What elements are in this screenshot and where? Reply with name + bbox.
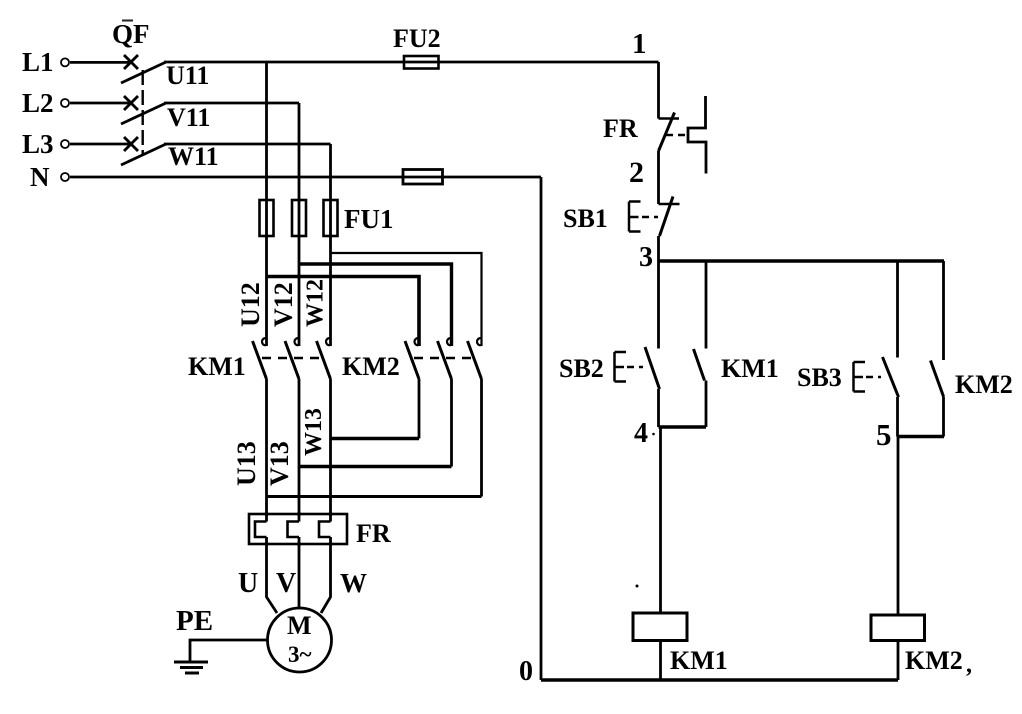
svg-text:V12: V12 [269, 282, 298, 327]
stray dot mark [636, 585, 639, 588]
wire W11 row [164, 143, 331, 146]
wire V11 row [164, 102, 299, 105]
wire coil KM1 bottom [659, 641, 662, 681]
FR trip actuator dashes [666, 134, 687, 137]
svg-text:KM1: KM1 [670, 646, 728, 675]
svg-text:V13: V13 [265, 441, 294, 486]
terminal N [61, 173, 69, 181]
svg-text:PE: PE [176, 605, 213, 637]
svg-text:W12: W12 [303, 279, 329, 327]
svg-text:U: U [238, 568, 258, 599]
wire L1 lead [70, 61, 131, 64]
wire U to motor [267, 537, 278, 613]
wire rail 3 [659, 259, 945, 262]
wire node1 drop [657, 62, 660, 119]
wire U13 bus [267, 495, 482, 498]
svg-text:KM2: KM2 [955, 370, 1013, 399]
svg-text:SB3: SB3 [797, 363, 842, 392]
SB3 actuator dashes [866, 376, 881, 379]
svg-text:FU1: FU1 [344, 204, 394, 234]
svg-text:,: , [966, 652, 972, 678]
FR heater element U [255, 522, 267, 538]
wire L3 lead [70, 143, 131, 146]
svg-text:KM2: KM2 [342, 352, 400, 381]
SB1 actuator dashes [642, 216, 658, 219]
wire rail 4 [659, 425, 707, 429]
fuse FU1 pole W [324, 200, 338, 236]
wire coil KM2 bottom [897, 641, 900, 681]
speck above QF [122, 20, 133, 22]
pushbutton SB2 (NO start KM1) [645, 347, 660, 427]
svg-text:W13: W13 [301, 408, 327, 456]
wire V column drop [298, 103, 301, 346]
fuse FU(N) on N row [403, 170, 443, 185]
wire bus W to KM2 pole3 [331, 253, 482, 346]
ground [174, 662, 208, 673]
svg-text:W11: W11 [168, 142, 219, 171]
wire KM1 aux branch top [705, 261, 708, 349]
terminal L3 [61, 140, 69, 148]
wire bus V to KM2 pole2 [299, 264, 452, 346]
wire W to motor [321, 537, 331, 613]
svg-text:N: N [30, 162, 50, 192]
svg-text:SB1: SB1 [563, 204, 608, 233]
wire W column drop [329, 144, 332, 346]
contact KM2 aux (NO hold) [931, 361, 944, 437]
svg-text:KM1: KM1 [188, 352, 246, 381]
junction dots FR box [265, 512, 333, 546]
fuse FU2 [404, 56, 439, 69]
wire U column drop [265, 62, 268, 346]
wire bus U to KM2 pole1 [267, 277, 420, 347]
wire PE [190, 640, 268, 662]
contactor KM2 linkage dashes [414, 357, 475, 359]
terminal L2 [61, 99, 69, 107]
svg-text:L2: L2 [22, 88, 54, 118]
wire V to motor [298, 537, 301, 608]
svg-text:L3: L3 [22, 129, 54, 159]
wire rail 0 [541, 678, 898, 681]
breaker QF pole 2 [121, 96, 166, 124]
wire node4 to coil KM1 [659, 427, 662, 613]
svg-text:L1: L1 [22, 47, 54, 77]
contactor KM2 main pole 2 [438, 338, 452, 467]
contact KM1 aux (NO hold) [694, 349, 707, 427]
svg-text:KM1: KM1 [721, 354, 779, 383]
SB3 button bracket [854, 362, 866, 392]
svg-text:0: 0 [519, 656, 533, 687]
svg-text:V11: V11 [167, 103, 210, 132]
svg-text:4: 4 [634, 418, 648, 449]
wire rail 5 [898, 435, 945, 439]
svg-text:QF: QF [112, 19, 150, 49]
svg-text:5: 5 [876, 417, 892, 452]
svg-text:U12: U12 [236, 282, 265, 327]
SB2 actuator dashes [627, 366, 643, 369]
wire N drop [540, 177, 543, 680]
FR trip element [688, 96, 706, 174]
svg-text:FR: FR [356, 519, 391, 548]
SB1 button bracket [629, 202, 641, 232]
svg-text:FU2: FU2 [393, 24, 441, 53]
breaker QF linkage [141, 70, 143, 155]
svg-text:2: 2 [629, 156, 644, 189]
contactor KM2 main pole 1 [405, 338, 419, 439]
fuse FU1 pole V [292, 200, 306, 236]
wire node5 to coil KM2 [897, 437, 900, 616]
svg-text:W: W [340, 568, 367, 598]
wire SB3 branch top [896, 261, 899, 358]
fuse FU1 pole U [260, 200, 274, 236]
wire KM2 aux branch top [942, 261, 945, 360]
stray dot after 4 [652, 433, 655, 436]
thermal relay FR heater box [249, 514, 347, 544]
contactor KM1 main pole 2 [285, 338, 299, 522]
wire U11 row [164, 61, 659, 64]
svg-text:U13: U13 [232, 441, 261, 486]
wire N row [70, 176, 541, 179]
svg-text:SB2: SB2 [559, 354, 604, 383]
contactor KM1 main pole 3 [317, 338, 331, 522]
svg-text:KM2: KM2 [905, 646, 963, 675]
motor M 3~ [268, 608, 332, 672]
FR heater element W [319, 522, 331, 538]
svg-text:1: 1 [632, 28, 647, 60]
breaker QF pole 3 [121, 137, 166, 165]
wire SB2 branch top [657, 261, 660, 349]
wire V13 bus [299, 465, 452, 468]
thermal relay FR NC contact [659, 113, 680, 205]
breaker QF pole 1 [121, 55, 166, 83]
terminal L1 [61, 58, 69, 66]
svg-text:FR: FR [603, 114, 638, 143]
contactor KM1 linkage dashes [262, 357, 324, 359]
svg-text:M: M [287, 611, 312, 640]
wire L2 lead [70, 102, 131, 105]
SB2 button bracket [615, 352, 627, 382]
svg-text:3~: 3~ [288, 642, 312, 667]
svg-text:V: V [276, 568, 296, 599]
coil KM1 [633, 613, 687, 641]
svg-text:U11: U11 [166, 61, 209, 90]
wire W13 bus [331, 437, 420, 440]
FR heater element V [288, 522, 300, 538]
pushbutton SB1 (NC stop) [659, 197, 680, 262]
pushbutton SB3 (NO start KM2) [883, 357, 899, 437]
svg-text:3: 3 [639, 242, 653, 273]
contactor KM1 main pole 1 [253, 338, 267, 522]
coil KM2 [871, 615, 925, 641]
contactor KM2 main pole 3 [468, 338, 482, 497]
